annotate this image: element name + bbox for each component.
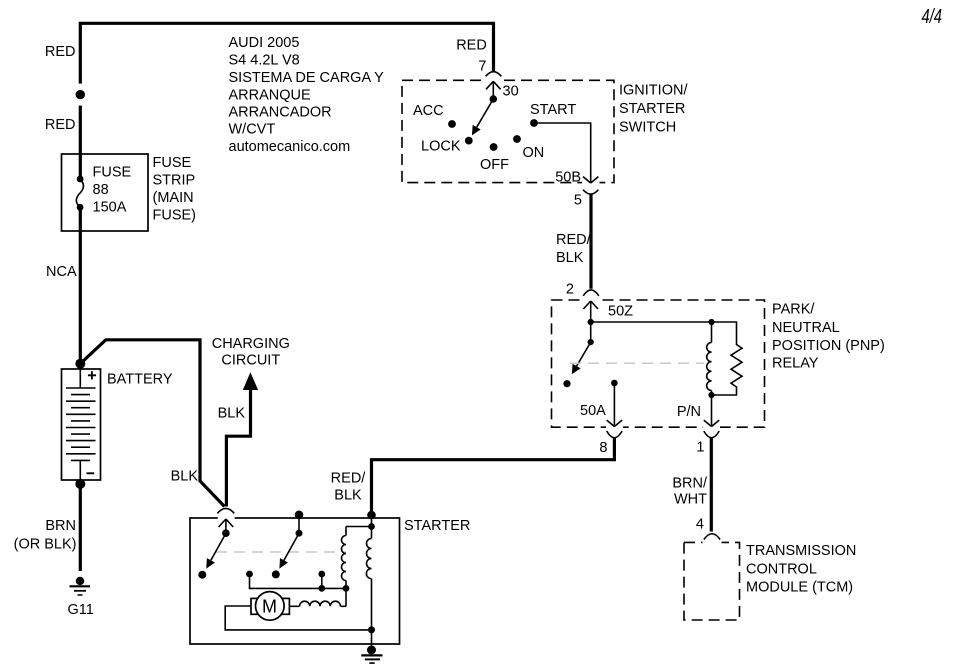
svg-text:1: 1 [696,440,704,456]
svg-text:CHARGING: CHARGING [212,336,290,352]
svg-text:FUSE): FUSE) [153,208,197,224]
svg-text:ACC: ACC [413,103,444,119]
svg-text:WHT: WHT [674,492,707,508]
svg-text:BLK: BLK [218,406,246,422]
svg-text:SISTEMA DE CARGA Y: SISTEMA DE CARGA Y [229,70,385,86]
svg-text:IGNITION/: IGNITION/ [619,83,688,99]
svg-text:8: 8 [599,440,607,456]
svg-text:M: M [262,596,277,616]
svg-text:BLK: BLK [556,250,584,266]
svg-text:STARTER: STARTER [404,518,470,534]
svg-text:FUSE: FUSE [153,155,192,171]
svg-text:OFF: OFF [480,157,509,173]
svg-text:CIRCUIT: CIRCUIT [221,353,280,369]
svg-text:STARTER: STARTER [619,101,685,117]
svg-text:5: 5 [574,193,582,209]
svg-text:LOCK: LOCK [421,139,461,155]
svg-text:30: 30 [503,84,519,100]
svg-text:(OR BLK): (OR BLK) [14,537,77,553]
svg-text:BLK: BLK [171,469,199,485]
svg-text:RED/: RED/ [556,232,592,248]
svg-text:150A: 150A [93,200,127,216]
svg-text:FUSE: FUSE [93,165,132,181]
svg-text:BLK: BLK [334,488,362,504]
svg-text:88: 88 [93,182,109,198]
svg-text:BRN/: BRN/ [672,476,708,492]
svg-text:2: 2 [566,282,574,298]
svg-text:MODULE (TCM): MODULE (TCM) [746,580,853,596]
svg-text:7: 7 [478,59,486,75]
svg-text:RED: RED [45,117,76,133]
svg-text:BATTERY: BATTERY [107,372,173,388]
svg-text:ON: ON [523,145,545,161]
svg-text:4/4: 4/4 [922,6,943,28]
svg-text:PARK/: PARK/ [772,302,815,318]
svg-text:50B: 50B [555,170,581,186]
svg-text:P/N: P/N [677,404,701,420]
svg-text:BRN: BRN [45,518,76,534]
svg-text:4: 4 [696,517,704,533]
svg-text:RED: RED [45,44,76,60]
svg-text:50A: 50A [580,403,606,419]
svg-text:(MAIN: (MAIN [153,190,194,206]
svg-text:50Z: 50Z [608,304,633,320]
svg-text:NEUTRAL: NEUTRAL [772,320,840,336]
svg-text:STRIP: STRIP [153,173,196,189]
svg-text:POSITION (PNP): POSITION (PNP) [772,338,885,354]
svg-text:RED/: RED/ [331,471,367,487]
svg-text:S4 4.2L V8: S4 4.2L V8 [229,53,300,69]
svg-text:RELAY: RELAY [772,356,819,372]
svg-text:ARRANCADOR: ARRANCADOR [229,105,332,121]
svg-text:TRANSMISSION: TRANSMISSION [746,543,856,559]
svg-text:NCA: NCA [46,264,77,280]
svg-text:START: START [530,102,576,118]
svg-text:G11: G11 [68,602,94,618]
svg-text:W/CVT: W/CVT [229,122,276,138]
svg-text:RED: RED [456,38,487,54]
svg-text:CONTROL: CONTROL [746,562,817,578]
svg-text:AUDI 2005: AUDI 2005 [229,35,300,51]
svg-text:SWITCH: SWITCH [619,120,676,136]
svg-text:automecanico.com: automecanico.com [229,139,351,155]
svg-text:ARRANQUE: ARRANQUE [229,88,312,104]
